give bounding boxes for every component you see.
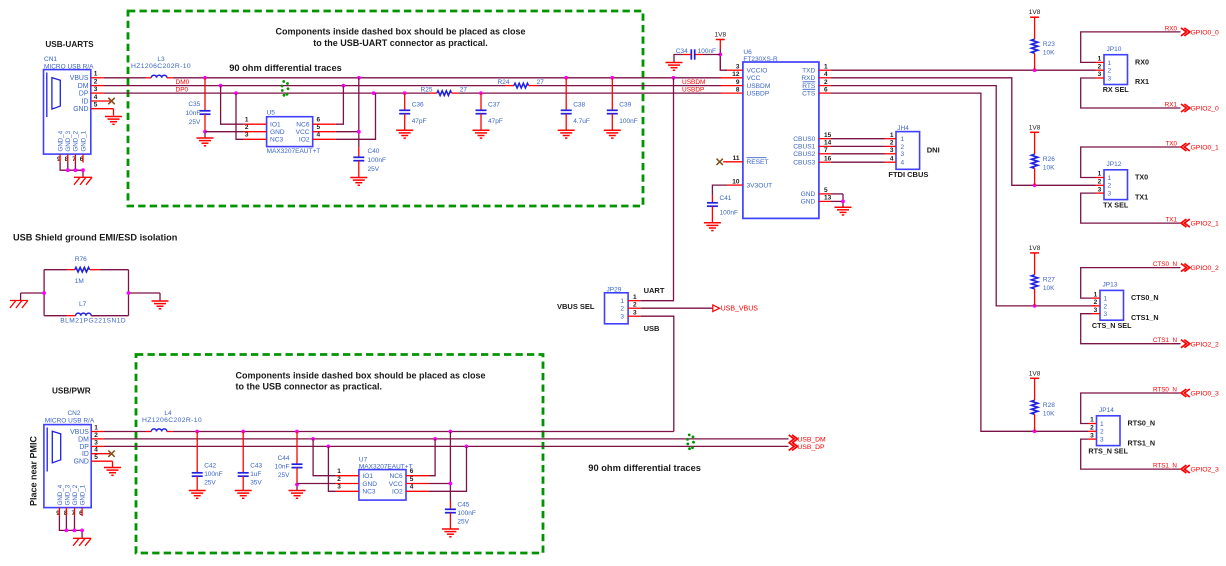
svg-text:1: 1 xyxy=(337,468,341,475)
svg-text:TX1: TX1 xyxy=(1135,192,1148,201)
svg-text:2: 2 xyxy=(1108,68,1112,75)
ground C43 xyxy=(235,491,252,499)
wire JP29 pin2 to USB_VBUS xyxy=(641,307,713,309)
svg-text:to the USB-UART connector as p: to the USB-UART connector as practical. xyxy=(313,38,488,48)
ground C41 xyxy=(704,223,721,231)
section title USB Shield ground EMI/ESD isolation xyxy=(13,232,178,242)
ground (shield) xyxy=(152,301,169,309)
net label DP0 xyxy=(176,87,189,94)
wire U7 pin1 to DM xyxy=(313,439,336,476)
svg-text:2: 2 xyxy=(824,79,828,86)
svg-text:U6: U6 xyxy=(743,49,752,56)
svg-text:GND: GND xyxy=(801,191,816,198)
svg-text:2: 2 xyxy=(1108,183,1112,190)
port USB_VBUS xyxy=(713,305,758,313)
svg-text:2: 2 xyxy=(1098,179,1102,186)
net label RTS1_N (red) xyxy=(1153,463,1177,470)
svg-text:RXD: RXD xyxy=(801,75,815,82)
port GPIO2_1 xyxy=(1181,219,1219,228)
svg-text:2: 2 xyxy=(1104,303,1108,310)
svg-text:VCC: VCC xyxy=(296,129,310,136)
svg-text:1V8: 1V8 xyxy=(715,32,727,39)
net label TX1 (red) xyxy=(1165,217,1177,224)
svg-text:3: 3 xyxy=(94,439,98,446)
svg-text:7: 7 xyxy=(824,147,828,154)
svg-text:5: 5 xyxy=(410,476,414,483)
label CTS_N SEL xyxy=(1092,321,1132,330)
chassis ground CN2 xyxy=(73,538,91,546)
svg-text:Place near PMIC: Place near PMIC xyxy=(29,435,39,506)
svg-text:25V: 25V xyxy=(189,119,201,126)
svg-text:GND_3: GND_3 xyxy=(65,130,72,151)
op-amp U5 MAX3207EAUT+T (ESD protection) xyxy=(245,110,321,155)
svg-text:IO2: IO2 xyxy=(392,489,403,496)
label RX0 xyxy=(1135,57,1149,66)
differential pair marker (top) xyxy=(281,80,290,97)
svg-text:USB Shield ground EMI/ESD isol: USB Shield ground EMI/ESD isolation xyxy=(13,232,178,242)
capacitor C43 1uF 35V xyxy=(238,432,263,491)
svg-text:L4: L4 xyxy=(164,410,172,417)
svg-text:TX SEL: TX SEL xyxy=(1103,200,1129,209)
svg-text:NC3: NC3 xyxy=(270,137,284,144)
svg-text:3: 3 xyxy=(736,63,740,70)
svg-text:1: 1 xyxy=(890,132,894,139)
svg-text:3: 3 xyxy=(1100,437,1104,444)
ground CN2 GND pin xyxy=(104,468,121,476)
svg-text:6: 6 xyxy=(317,117,321,124)
wire RXD to JP12 xyxy=(831,78,1096,187)
ground C34 xyxy=(666,63,683,71)
svg-text:VBUS: VBUS xyxy=(70,429,89,436)
dashed placement box (USB-UART) xyxy=(128,11,643,206)
svg-text:USB_DP: USB_DP xyxy=(797,444,825,451)
svg-text:C45: C45 xyxy=(457,501,469,508)
port GPIO0_0 xyxy=(1181,28,1219,37)
svg-text:CBUS3: CBUS3 xyxy=(793,160,815,167)
svg-text:4: 4 xyxy=(94,94,98,101)
port GPIO0_2 xyxy=(1181,264,1219,273)
wire JP10 pin1 to GPIO0_0 xyxy=(1081,32,1181,63)
pin stubs CN1 xyxy=(60,78,113,163)
svg-text:1: 1 xyxy=(94,424,98,431)
svg-text:TX0: TX0 xyxy=(1135,173,1148,182)
pin stubs U7 xyxy=(336,476,429,492)
port GPIO2_0 xyxy=(1181,104,1219,113)
chassis ground CN1 xyxy=(74,177,92,185)
svg-text:3: 3 xyxy=(245,132,249,139)
svg-text:3: 3 xyxy=(901,151,905,158)
svg-text:25V: 25V xyxy=(457,518,469,525)
svg-text:11: 11 xyxy=(733,155,740,162)
svg-text:IO2: IO2 xyxy=(299,137,310,144)
svg-text:USB_VBUS: USB_VBUS xyxy=(721,306,759,313)
wire JP12 pin1 to GPIO0_1 xyxy=(1081,147,1181,178)
wire RTS to JP13 xyxy=(831,86,1096,308)
svg-text:1V8: 1V8 xyxy=(1029,245,1041,252)
label TX1 xyxy=(1135,192,1148,201)
svg-text:GPIO0_3: GPIO0_3 xyxy=(1191,391,1220,398)
section title USB/PWR xyxy=(52,386,91,395)
svg-text:1: 1 xyxy=(620,298,624,305)
svg-text:GND_3: GND_3 xyxy=(64,484,71,505)
wire shield loop xyxy=(21,270,160,316)
svg-text:Components inside dashed box s: Components inside dashed box should be p… xyxy=(275,27,525,37)
svg-text:3: 3 xyxy=(1090,432,1094,439)
label RX SEL xyxy=(1103,85,1130,94)
svg-text:25V: 25V xyxy=(204,479,216,486)
svg-text:2: 2 xyxy=(245,124,249,131)
svg-text:RESET: RESET xyxy=(747,159,769,166)
wire JP10 pin3 to GPIO2_0 xyxy=(1081,78,1181,108)
svg-text:JP10: JP10 xyxy=(1107,46,1122,53)
resistor R26 10K xyxy=(1031,132,1055,185)
no-connect X on CN1 ID pin xyxy=(108,98,114,104)
svg-text:1: 1 xyxy=(824,63,828,70)
svg-text:MAX3207EAUT+T: MAX3207EAUT+T xyxy=(267,148,321,155)
wire C44/U7 ground node xyxy=(295,483,299,490)
power 1V8 (R27) xyxy=(1029,245,1041,253)
svg-text:U5: U5 xyxy=(267,110,276,117)
svg-text:2: 2 xyxy=(94,79,98,86)
label RTS_N SEL xyxy=(1088,446,1128,455)
svg-text:5: 5 xyxy=(824,187,828,194)
power 1V8 (VCCIO) xyxy=(715,32,727,40)
svg-text:GPIO0_0: GPIO0_0 xyxy=(1191,30,1220,37)
svg-text:C41: C41 xyxy=(720,195,732,202)
svg-text:25V: 25V xyxy=(368,166,380,173)
svg-text:R27: R27 xyxy=(1043,277,1055,284)
svg-text:1: 1 xyxy=(1100,421,1104,428)
note text USB-UART box xyxy=(275,27,525,48)
svg-text:1: 1 xyxy=(1098,56,1102,63)
ground CN1 GND pin xyxy=(105,117,122,125)
wire DP rail (UART) xyxy=(104,91,721,95)
wire U7 pin3 to DP xyxy=(328,446,336,491)
svg-text:4: 4 xyxy=(824,71,828,78)
svg-text:MICRO USB R/A: MICRO USB R/A xyxy=(45,417,95,424)
svg-text:1uF: 1uF xyxy=(250,471,261,478)
svg-text:15: 15 xyxy=(824,132,832,139)
inductor L4 HZ1206C202R-10 xyxy=(142,410,202,431)
svg-text:90 ohm differential traces: 90 ohm differential traces xyxy=(588,463,701,473)
svg-text:1: 1 xyxy=(94,71,98,78)
svg-text:4.7uF: 4.7uF xyxy=(573,118,590,125)
svg-text:GND: GND xyxy=(362,481,377,488)
svg-text:GND_1: GND_1 xyxy=(80,484,87,505)
svg-text:2: 2 xyxy=(1094,299,1098,306)
svg-text:NC6: NC6 xyxy=(389,473,403,480)
wire U5 pin4 to DP xyxy=(336,93,376,139)
wire JP12 pin3 to GPIO2_1 xyxy=(1081,193,1181,223)
port GPIO2_3 xyxy=(1181,465,1219,474)
inductor L7 BLM21PG221SN1D xyxy=(60,301,126,324)
svg-text:GND: GND xyxy=(73,106,88,113)
power 1V8 (R26) xyxy=(1029,124,1041,132)
ground C38 xyxy=(558,130,575,138)
svg-text:C36: C36 xyxy=(412,102,424,109)
wire U7 pin5 to VBUS and C45 xyxy=(429,432,452,501)
net label CTS0_N (red) xyxy=(1153,261,1178,268)
label TX SEL xyxy=(1103,200,1129,209)
svg-text:RX0: RX0 xyxy=(1135,57,1149,66)
capacitor C36 47pF xyxy=(399,93,426,130)
jumper JP29 VBUS SEL xyxy=(605,287,641,324)
capacitor C38 4.7uF xyxy=(561,78,590,130)
svg-text:DM: DM xyxy=(78,83,89,90)
svg-text:3: 3 xyxy=(337,484,341,491)
svg-text:VCCIO: VCCIO xyxy=(747,68,768,75)
svg-text:VCC: VCC xyxy=(747,75,761,82)
svg-text:CBUS2: CBUS2 xyxy=(793,151,815,158)
svg-text:10nF: 10nF xyxy=(275,463,290,470)
resistor R23 10K xyxy=(1031,17,1055,70)
svg-text:9: 9 xyxy=(736,79,740,86)
svg-text:5: 5 xyxy=(94,102,98,109)
svg-text:CN2: CN2 xyxy=(67,410,80,417)
svg-text:JP13: JP13 xyxy=(1103,282,1118,289)
connector CN1 MICRO USB R/A xyxy=(44,56,98,163)
pin stubs U6 left xyxy=(721,70,743,185)
svg-text:R76: R76 xyxy=(75,256,87,263)
ground C37 xyxy=(473,130,490,138)
svg-text:JP14: JP14 xyxy=(1099,407,1114,414)
svg-text:10K: 10K xyxy=(1043,411,1055,418)
svg-text:1: 1 xyxy=(1104,296,1108,303)
wire CTS to JP14 xyxy=(831,93,1088,433)
svg-text:CTS: CTS xyxy=(802,90,816,97)
svg-text:1V8: 1V8 xyxy=(1029,9,1041,16)
jumper JP13 CTS_N SEL xyxy=(1092,282,1124,321)
wire CBUS0 to JH4 xyxy=(831,138,885,140)
svg-text:CTS1_N: CTS1_N xyxy=(1153,337,1178,344)
svg-text:GND_4: GND_4 xyxy=(57,484,64,505)
svg-text:2: 2 xyxy=(901,144,905,151)
wire JP29 pin1 to UART VBUS xyxy=(641,78,674,301)
svg-text:10nF: 10nF xyxy=(185,110,200,117)
svg-text:4: 4 xyxy=(890,155,894,162)
ground C36 xyxy=(396,130,413,138)
net label CTS1_N (red) xyxy=(1153,337,1178,344)
svg-text:GND_2: GND_2 xyxy=(72,484,79,505)
svg-text:HZ1206C202R-10: HZ1206C202R-10 xyxy=(142,417,202,424)
svg-text:3: 3 xyxy=(1104,311,1108,318)
svg-text:C43: C43 xyxy=(250,462,262,469)
svg-text:DP: DP xyxy=(79,91,89,98)
net label TX0 (red) xyxy=(1165,141,1177,148)
port USB_DP xyxy=(789,442,825,451)
svg-text:R26: R26 xyxy=(1043,156,1055,163)
label UART xyxy=(644,286,665,295)
svg-text:RTS0_N: RTS0_N xyxy=(1128,419,1156,428)
svg-text:1: 1 xyxy=(901,136,905,143)
wire U7 pin6 to DM xyxy=(429,439,435,476)
resistor R28 10K xyxy=(1031,378,1055,431)
wire JP13 pin1 to GPIO0_2 xyxy=(1081,268,1181,299)
capacitor C44 10nF 25V xyxy=(275,432,303,485)
svg-text:3: 3 xyxy=(620,314,624,321)
svg-text:TX1: TX1 xyxy=(1165,217,1177,224)
svg-text:DM0: DM0 xyxy=(176,79,190,86)
svg-text:CN1: CN1 xyxy=(44,56,57,63)
svg-text:NC3: NC3 xyxy=(362,489,376,496)
differential pair marker (bottom) xyxy=(686,434,695,451)
svg-text:GND_4: GND_4 xyxy=(58,130,65,151)
svg-text:L7: L7 xyxy=(79,301,87,308)
jumper JP10 RX SEL xyxy=(1096,46,1128,85)
wire 1V8 to VCCIO xyxy=(718,40,727,71)
svg-text:1: 1 xyxy=(1108,60,1112,67)
dashed placement box (USB) xyxy=(136,355,543,554)
ground C45 xyxy=(442,529,459,537)
port USB_DM xyxy=(789,435,826,444)
connector CN2 MICRO USB R/A xyxy=(44,410,98,517)
svg-text:2: 2 xyxy=(620,306,624,313)
svg-text:4: 4 xyxy=(901,160,905,167)
chassis ground (shield) xyxy=(10,301,28,309)
svg-text:RTS1_N: RTS1_N xyxy=(1128,438,1156,447)
wire JP29 pin3 to USB VBUS rail xyxy=(641,316,674,431)
wire USB VBUS rail xyxy=(104,430,674,434)
svg-text:USB-UARTS: USB-UARTS xyxy=(45,40,94,49)
svg-text:12: 12 xyxy=(732,71,740,78)
svg-text:USBDP: USBDP xyxy=(682,87,704,94)
svg-text:CTS_N SEL: CTS_N SEL xyxy=(1092,321,1132,330)
svg-text:USB: USB xyxy=(644,324,660,333)
svg-text:8: 8 xyxy=(736,86,740,93)
note text USB box xyxy=(236,370,486,391)
svg-text:C38: C38 xyxy=(573,102,585,109)
no-connect X on RESET xyxy=(717,159,723,165)
svg-text:CTS0_N: CTS0_N xyxy=(1153,261,1178,268)
svg-text:2: 2 xyxy=(337,476,341,483)
svg-text:TXD: TXD xyxy=(802,68,815,75)
svg-text:USBDP: USBDP xyxy=(747,90,770,97)
svg-text:4: 4 xyxy=(410,484,414,491)
svg-text:GPIO0_2: GPIO0_2 xyxy=(1191,265,1220,272)
svg-text:GPIO0_1: GPIO0_1 xyxy=(1191,145,1220,152)
svg-text:DNI: DNI xyxy=(927,146,940,155)
svg-text:UART: UART xyxy=(644,286,665,295)
svg-text:GPIO2_1: GPIO2_1 xyxy=(1191,221,1220,228)
svg-text:3: 3 xyxy=(1098,71,1102,78)
capacitor C42 100nF 25V xyxy=(192,432,223,491)
resistor R27 10K xyxy=(1031,253,1055,306)
svg-text:CBUS1: CBUS1 xyxy=(793,144,815,151)
svg-text:16: 16 xyxy=(824,155,832,162)
resistor R24 27 xyxy=(498,79,545,88)
pin stubs U5 xyxy=(244,124,336,139)
label FTDI CBUS xyxy=(888,170,928,179)
wire 3V3OUT to C41 xyxy=(712,185,727,195)
svg-text:27: 27 xyxy=(537,79,545,86)
svg-text:RTS: RTS xyxy=(802,83,816,90)
capacitor C40 100nF 25V xyxy=(353,147,386,177)
svg-text:3: 3 xyxy=(1094,307,1098,314)
svg-text:FTDI CBUS: FTDI CBUS xyxy=(888,170,928,179)
svg-text:GND_1: GND_1 xyxy=(80,130,87,151)
net label DM0 xyxy=(176,79,190,86)
no-connect X on CN2 ID pin xyxy=(108,451,114,457)
svg-text:3V3OUT: 3V3OUT xyxy=(747,182,773,189)
svg-text:100nF: 100nF xyxy=(720,209,738,216)
svg-text:C39: C39 xyxy=(619,102,631,109)
wire U5 pin6 to DM xyxy=(336,86,344,125)
svg-text:VBUS SEL: VBUS SEL xyxy=(557,302,595,311)
svg-text:25V: 25V xyxy=(278,472,290,479)
svg-text:1: 1 xyxy=(1090,417,1094,424)
svg-text:USBDM: USBDM xyxy=(682,79,705,86)
svg-text:5: 5 xyxy=(94,454,98,461)
svg-text:10: 10 xyxy=(732,178,740,185)
svg-text:C44: C44 xyxy=(278,455,290,462)
svg-text:RX1: RX1 xyxy=(1135,77,1149,86)
wire U5 pin2 to ground node xyxy=(205,131,244,133)
port GPIO2_2 xyxy=(1181,340,1219,349)
svg-text:GND: GND xyxy=(270,129,285,136)
svg-text:1: 1 xyxy=(633,294,637,301)
wire U5 pin5 to VBUS and C40 xyxy=(336,78,361,147)
svg-text:1: 1 xyxy=(1108,175,1112,182)
wire JP14 pin1 to GPIO0_3 xyxy=(1081,393,1181,424)
ground C42 xyxy=(189,491,206,499)
svg-text:C35: C35 xyxy=(188,101,200,108)
svg-text:CTS1_N: CTS1_N xyxy=(1131,313,1159,322)
svg-text:2: 2 xyxy=(1098,63,1102,70)
svg-text:90 ohm differential traces: 90 ohm differential traces xyxy=(229,63,342,73)
svg-text:2: 2 xyxy=(94,432,98,439)
svg-text:100nF: 100nF xyxy=(457,510,475,517)
svg-text:1: 1 xyxy=(1094,291,1098,298)
wire JP14 pin3 to GPIO2_3 xyxy=(1081,439,1181,469)
svg-text:DP: DP xyxy=(79,444,89,451)
svg-text:GPIO2_0: GPIO2_0 xyxy=(1191,106,1220,113)
svg-text:5: 5 xyxy=(317,124,321,131)
wire TXD to JP10 xyxy=(831,68,1096,72)
svg-text:ID: ID xyxy=(82,451,89,458)
label RTS1_N xyxy=(1128,438,1156,447)
svg-text:Components inside dashed box s: Components inside dashed box should be p… xyxy=(236,370,486,380)
svg-text:BLM21PG221SN1D: BLM21PG221SN1D xyxy=(60,317,126,324)
inductor L3 HZ1206C202R-10 xyxy=(131,56,191,78)
op-amp U7 MAX3207EAUT+T (ESD protection) xyxy=(337,457,414,501)
ground C35 xyxy=(197,138,214,146)
svg-text:47pF: 47pF xyxy=(488,118,503,125)
svg-text:USB/PWR: USB/PWR xyxy=(52,386,91,395)
capacitor C45 100nF 25V xyxy=(445,501,476,529)
resistor R25 27 xyxy=(421,87,468,96)
ground U6 xyxy=(835,207,852,215)
capacitor C41 100nF xyxy=(707,195,738,223)
wire C35/U5 ground node xyxy=(203,130,207,138)
svg-text:4: 4 xyxy=(94,447,98,454)
svg-text:L3: L3 xyxy=(157,56,165,63)
capacitor C37 47pF xyxy=(476,93,503,130)
ground C44 xyxy=(289,491,306,499)
label RX1 xyxy=(1135,77,1149,86)
jumper JP12 TX SEL xyxy=(1096,161,1128,200)
svg-text:100nF: 100nF xyxy=(204,471,222,478)
label USB xyxy=(644,324,660,333)
svg-text:1: 1 xyxy=(245,117,249,124)
svg-text:27: 27 xyxy=(460,87,468,94)
wire U7 pin4 to DP xyxy=(429,446,467,491)
capacitor C35 10nF 25V xyxy=(185,78,210,132)
svg-text:2: 2 xyxy=(633,301,637,308)
svg-text:14: 14 xyxy=(824,140,832,147)
svg-text:13: 13 xyxy=(824,195,832,202)
wire CN2 shield to chassis xyxy=(59,516,84,538)
ground C39 xyxy=(604,130,621,138)
